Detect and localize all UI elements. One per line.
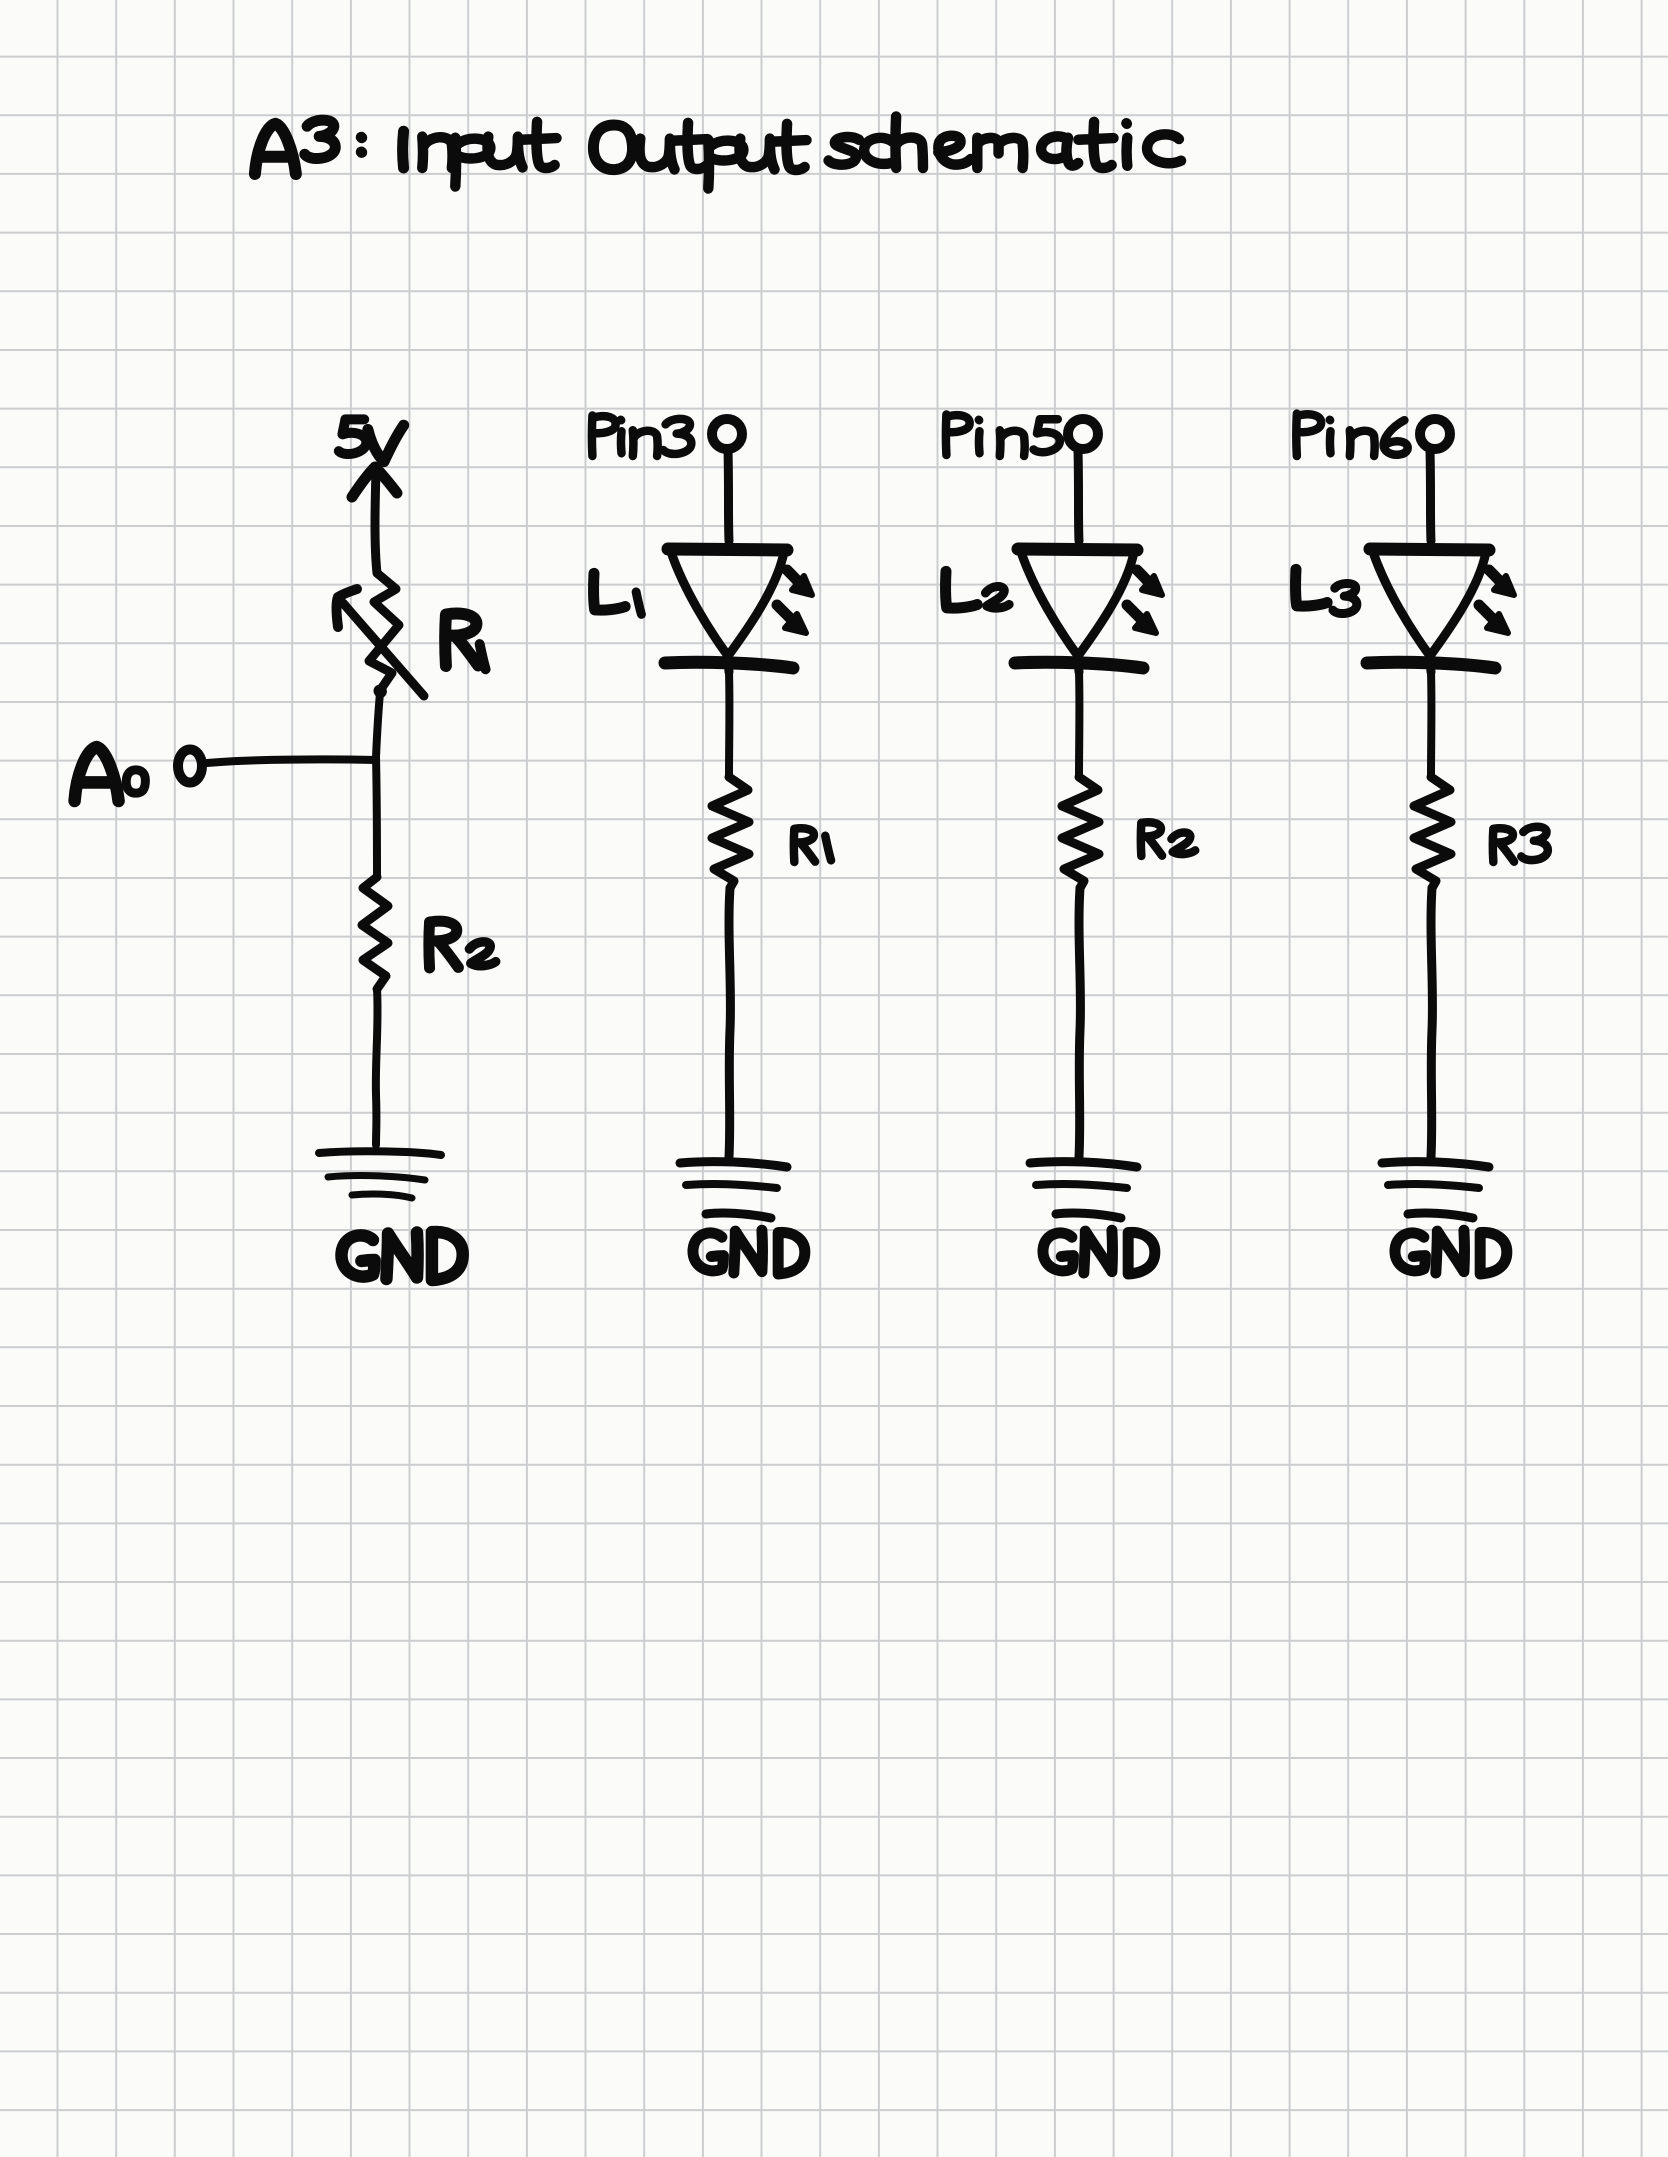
- wire A0 to node: [207, 759, 376, 763]
- wire pot to node: [376, 693, 380, 757]
- label R1: [445, 614, 478, 666]
- label R2: [429, 921, 458, 968]
- wire pin to LED L2: [1078, 450, 1079, 541]
- label Pin 5: [946, 415, 1060, 456]
- label L2: [946, 571, 1010, 608]
- label GND: [1043, 1230, 1155, 1274]
- label R1 subscript: [480, 644, 486, 669]
- LED L3 emission arrows: [1479, 570, 1514, 633]
- LED L2 emission arrows: [1127, 570, 1162, 633]
- label R2: [1141, 822, 1195, 856]
- wire R2 to ground: [376, 989, 378, 1145]
- wire R3 to ground: [1431, 888, 1432, 1157]
- 5V supply arrow: [352, 467, 397, 573]
- ground: [1382, 1162, 1489, 1218]
- terminal A0: [178, 750, 202, 783]
- wire LED to resistor R3: [1427, 672, 1435, 777]
- wire R2 to ground: [1079, 888, 1080, 1157]
- resistor R2 body: [362, 877, 388, 989]
- title: A3 : Input Output schematic: [255, 116, 1181, 188]
- potentiometer R1 wiper arrow: [337, 589, 425, 696]
- LED L2: [1015, 549, 1143, 672]
- resistor R3 body: [1414, 777, 1451, 888]
- terminal Pin 3: [712, 419, 742, 449]
- label 5v: [339, 419, 404, 461]
- resistor R2 body: [1062, 777, 1099, 888]
- label A0: [75, 747, 119, 801]
- label GND (left): [341, 1232, 462, 1280]
- LED L3: [1367, 549, 1495, 672]
- wire node to R2: [376, 757, 377, 877]
- label GND: [1395, 1230, 1507, 1274]
- LED L1 emission arrows: [777, 570, 812, 633]
- LED L1: [665, 549, 793, 672]
- label L1: [594, 573, 642, 614]
- label GND: [693, 1230, 805, 1274]
- wire LED to resistor R2: [1075, 672, 1083, 777]
- resistor R1 body: [712, 777, 749, 888]
- wire R1 to ground: [729, 888, 730, 1157]
- label Pin 3: [592, 416, 691, 456]
- label L3: [1296, 569, 1357, 613]
- potentiometer R1 body: [369, 573, 399, 692]
- ground (left): [319, 1151, 441, 1198]
- terminal Pin 6: [1420, 419, 1450, 449]
- label A0 subscript: [126, 770, 145, 793]
- label R1: [794, 828, 831, 862]
- label R3: [1493, 827, 1548, 862]
- ground: [680, 1162, 787, 1218]
- label Pin 6: [1296, 414, 1407, 456]
- wire LED to resistor R1: [725, 672, 733, 777]
- label R2 subscript: [469, 942, 495, 966]
- wire pin to LED L1: [728, 450, 729, 541]
- wire pin to LED L3: [1430, 450, 1431, 541]
- terminal Pin 5: [1068, 419, 1098, 449]
- ground: [1030, 1162, 1137, 1218]
